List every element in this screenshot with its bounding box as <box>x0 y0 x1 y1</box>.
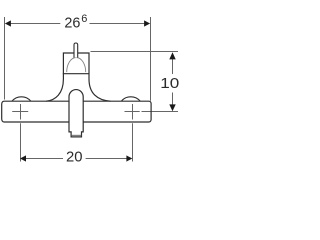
extension line left (overall width 26.6) <box>4 17 6 100</box>
reference line from body top (for dim 10) <box>91 51 179 53</box>
right escutcheon dome <box>121 97 140 101</box>
cartridge box bottom divider <box>63 73 90 75</box>
mixer body (fillets + cartridge box) <box>46 53 111 101</box>
spout aerator seam <box>71 134 81 136</box>
extension line below right connection (dim 20) <box>132 123 134 161</box>
centerline left connection (crosshair) <box>12 104 28 120</box>
dimension line 26.6 (top) <box>6 23 150 25</box>
svg-text:10: 10 <box>160 75 179 92</box>
handle stem outline <box>74 43 78 58</box>
handle stem white fill <box>74 43 78 58</box>
arrowhead top of dim 10 <box>169 52 175 59</box>
reference centerline right (for dim 10) <box>142 111 179 113</box>
spout outline <box>69 90 83 137</box>
centerline right connection (crosshair) <box>125 104 140 120</box>
extension line below left connection (dim 20) <box>20 123 22 161</box>
handle skirt (bell curve, thin) <box>67 57 86 72</box>
faucet body bar right end cap <box>149 101 151 122</box>
spout tip white mask <box>71 132 81 137</box>
arrowhead bottom of dim 10 <box>169 104 175 111</box>
left escutcheon dome <box>12 97 31 101</box>
arrowhead right of dim 26.6 <box>144 20 150 26</box>
arrowhead left of dim 26.6 <box>5 20 11 26</box>
spout white mask <box>69 90 83 132</box>
faucet body bar top edge <box>4 100 149 102</box>
arrowhead right of dim 20 <box>126 155 132 161</box>
dimension line 10 (right, vertical) <box>172 59 174 105</box>
svg-text:6: 6 <box>81 13 87 25</box>
svg-text:20: 20 <box>66 149 83 166</box>
svg-text:26: 26 <box>64 15 80 32</box>
dimension line 20 (bottom) <box>22 158 131 160</box>
faucet body bar bottom edge <box>4 121 149 123</box>
arrowhead left of dim 20 <box>20 155 26 161</box>
faucet body bar left end cap <box>2 101 4 122</box>
extension line right (overall width 26.6) <box>150 17 152 101</box>
